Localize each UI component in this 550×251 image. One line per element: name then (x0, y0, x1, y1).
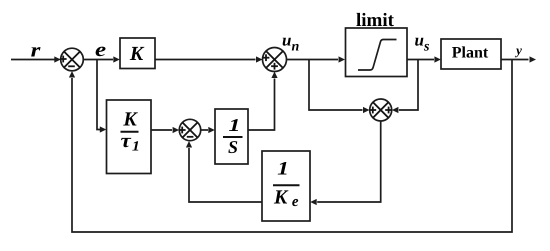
summing junction S3 (179, 119, 201, 140)
wire branch down to S4 left input (309, 60, 370, 114)
svg-text:e: e (95, 39, 106, 61)
block 1/S (215, 109, 248, 164)
svg-text:limit: limit (356, 10, 395, 31)
summing junction S1 (60, 48, 84, 71)
wire branch down to S4 right input (392, 60, 418, 114)
summing junction S2 (263, 48, 287, 72)
wire feedback y down, left, up to S1 (69, 60, 512, 233)
wire r input (11, 56, 61, 62)
wire 1/S right and up to S2 (248, 72, 278, 131)
svg-text:y: y (514, 43, 522, 58)
block limit (346, 28, 408, 77)
svg-text:1: 1 (277, 159, 289, 180)
wire S4 down to 1/Ke (310, 121, 381, 205)
block K/tau1 (107, 100, 152, 174)
wire limit to Plant (407, 56, 441, 62)
svg-text:r: r (31, 40, 41, 62)
block Plant (441, 39, 501, 69)
summing junction S4 (369, 99, 392, 121)
svg-text:S: S (228, 137, 238, 157)
saturation curve (358, 40, 397, 71)
wire Plant output y (501, 56, 536, 62)
wire K to S2 (155, 56, 263, 62)
block 1/Ke (262, 151, 310, 221)
svg-text:1: 1 (228, 115, 240, 135)
svg-text:Plant: Plant (452, 45, 489, 62)
wire S3 to 1/S (201, 127, 215, 133)
block K (120, 38, 155, 69)
wire e branch down to K/tau1 (97, 60, 106, 133)
wire K/tau1 to S3 (151, 127, 179, 133)
wire S2 to limit (287, 56, 346, 62)
svg-text:K: K (129, 43, 145, 65)
wire S1 to K (83, 56, 120, 62)
svg-text:K: K (122, 109, 138, 131)
wire 1/Ke left and up to S3 (186, 141, 262, 202)
